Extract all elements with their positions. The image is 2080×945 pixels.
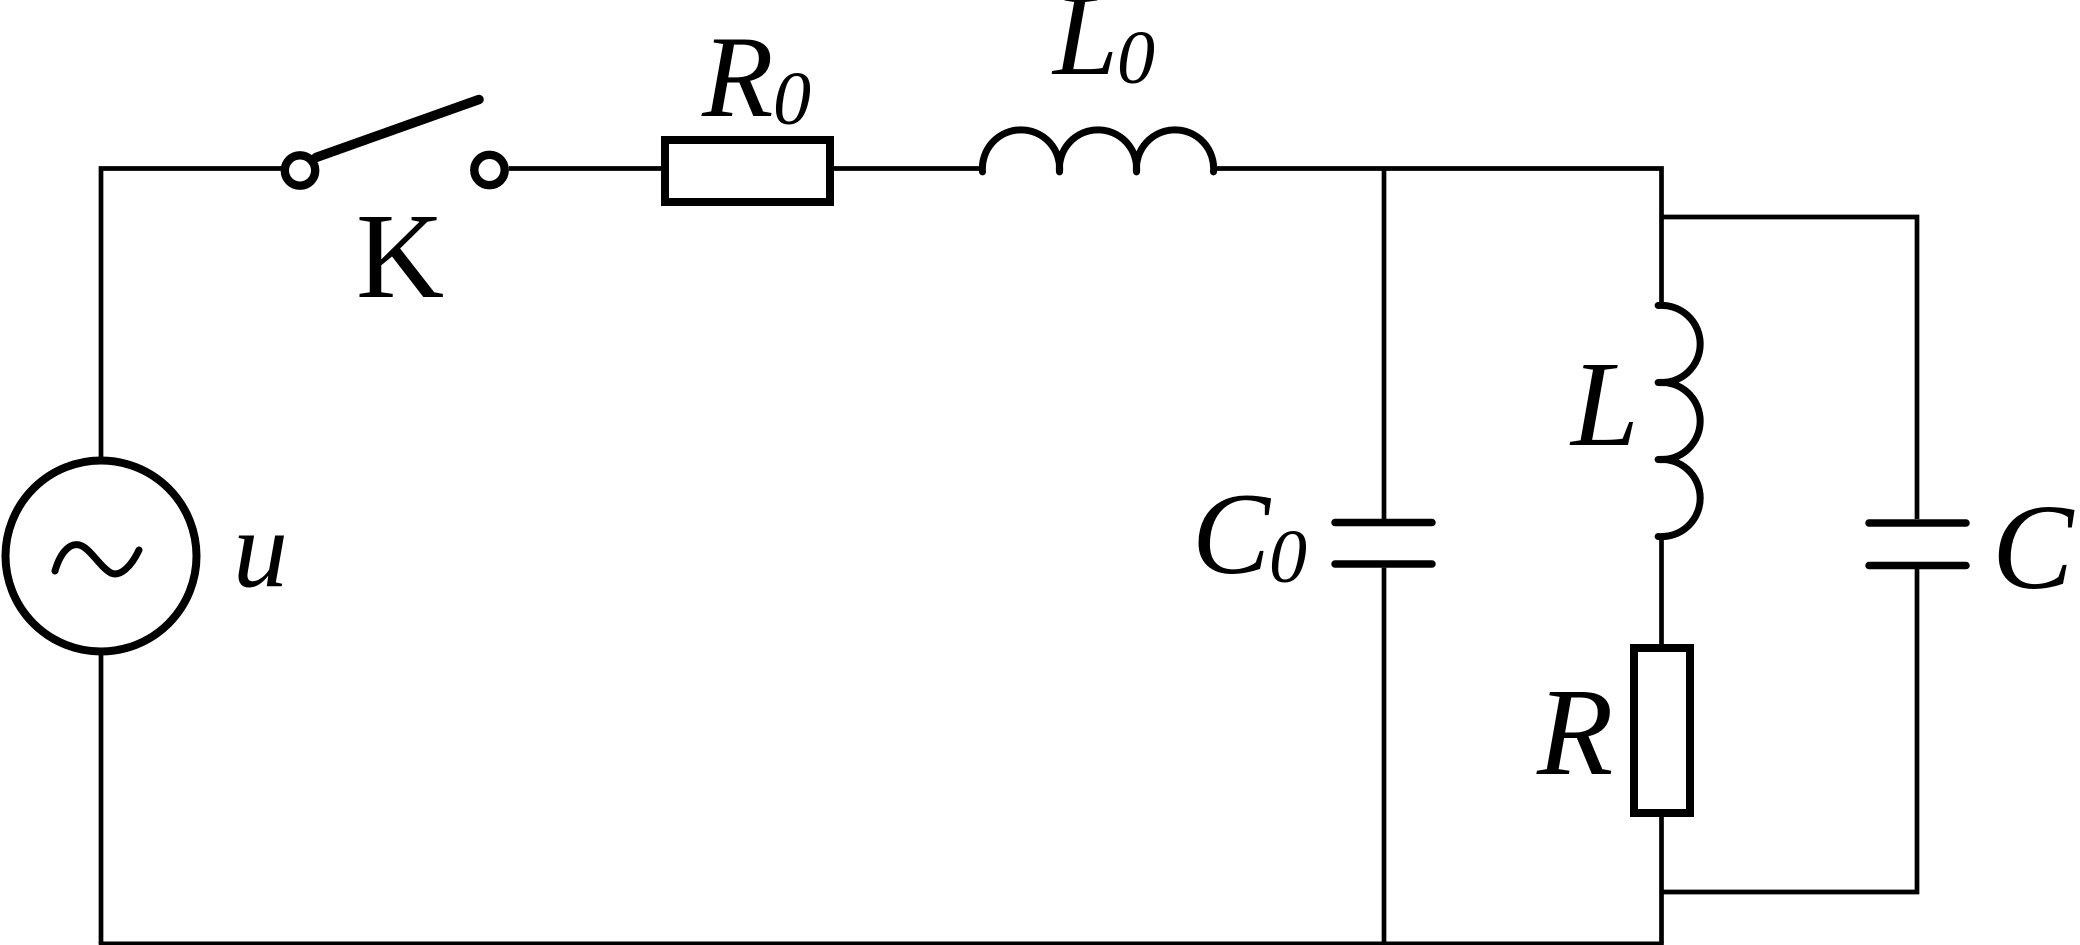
label L0 (1051, 0, 1155, 100)
wire: C bottom to junction with R branch (1662, 569, 1918, 892)
svg-text:0: 0 (1117, 16, 1155, 100)
wire: R0 to L0 (834, 166, 981, 171)
wire: bottom rail (99, 941, 1664, 945)
svg-text:u: u (233, 488, 288, 610)
wire: source bottom down (99, 655, 104, 944)
label C0 (1192, 470, 1307, 599)
inductor L0 (3 arcs) (982, 130, 1213, 172)
wire: coil L to resistor R (1659, 535, 1664, 648)
wire: C0 bottom to bottom rail (1382, 568, 1387, 943)
svg-text:0: 0 (773, 57, 811, 141)
svg-text:L: L (1051, 0, 1118, 100)
switch K right contact (474, 155, 504, 185)
svg-text:K: K (356, 189, 444, 324)
wire: resistor R to bottom rail (1659, 813, 1664, 943)
label R0 (701, 13, 811, 142)
resistor R (1634, 648, 1690, 813)
wire: switch to R0 (509, 166, 662, 171)
svg-text:0: 0 (1269, 515, 1307, 599)
wire: L0 to top-right corner, down to coil L (1214, 169, 1662, 306)
inductor L (3 vertical arcs) (1658, 305, 1700, 536)
capacitor C0 (1335, 523, 1432, 565)
wire: C0 branch vertical (top) (1382, 169, 1387, 520)
svg-text:C: C (1992, 480, 2075, 615)
svg-text:R: R (1536, 664, 1613, 802)
svg-text:C: C (1192, 470, 1272, 599)
capacitor C (1869, 523, 1966, 566)
AC source u (circle with sine) (6, 461, 197, 652)
resistor R0 (665, 140, 830, 202)
wire: source top to switch left contact (101, 169, 281, 458)
svg-text:R: R (701, 13, 773, 142)
switch K left contact (285, 155, 315, 185)
svg-text:L: L (1569, 337, 1639, 472)
switch K lever (316, 100, 479, 158)
wire: junction to capacitor C branch (horizontal) (1662, 217, 1918, 519)
